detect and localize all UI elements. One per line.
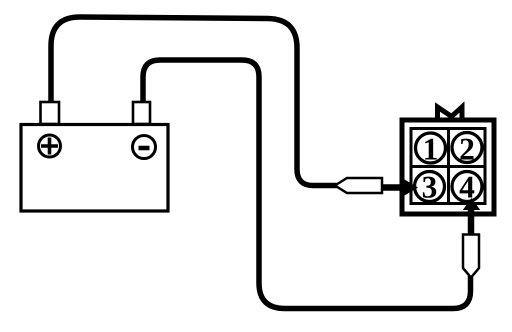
arrow into pin 4 — [463, 198, 480, 210]
connector inner housing — [411, 129, 485, 204]
pin 2 cavity — [452, 133, 482, 163]
lead stub into pin 4 — [468, 208, 475, 236]
svg-text:2: 2 — [459, 132, 475, 167]
svg-text:3: 3 — [422, 170, 438, 205]
lead stub into pin 3 — [382, 184, 401, 191]
wire from battery negative terminal to connector pin 4 — [143, 60, 471, 309]
test lead terminal on pin 4 wire — [463, 235, 479, 278]
battery plus symbol — [39, 135, 61, 157]
wire from battery positive terminal to connector pin 3 — [51, 17, 338, 186]
test lead terminal on pin 3 wire — [335, 178, 382, 193]
connector divider vertical — [447, 129, 450, 204]
svg-text:4: 4 — [459, 170, 475, 205]
arrow into pin 3 — [402, 178, 419, 197]
svg-text:1: 1 — [423, 132, 439, 167]
battery negative terminal post — [133, 102, 150, 124]
connector divider horizontal — [411, 165, 485, 168]
connector latch — [438, 107, 463, 119]
battery minus symbol — [133, 136, 156, 159]
pin 3 cavity — [415, 172, 445, 202]
battery body — [21, 125, 168, 212]
pin 4 cavity — [452, 172, 482, 202]
battery positive terminal post — [41, 102, 60, 124]
pin 1 cavity — [416, 133, 446, 163]
connector outer housing — [402, 120, 494, 214]
